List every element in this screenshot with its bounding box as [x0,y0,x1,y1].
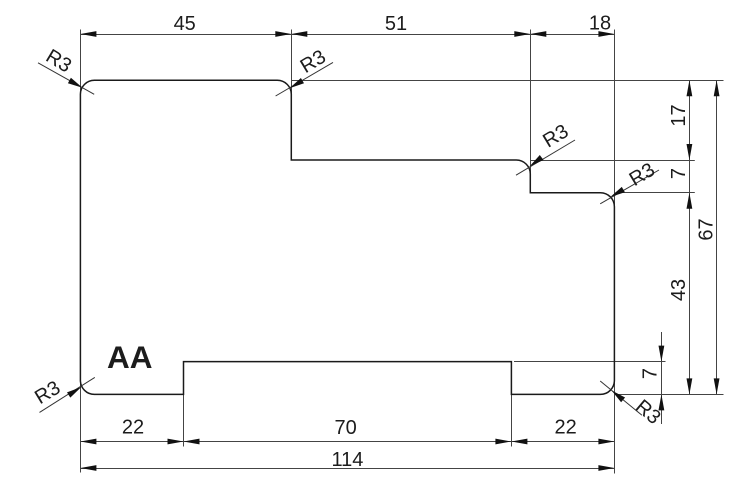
dimension line bottom-right 7 [661,332,663,424]
extension line at x=291.3 [291,30,293,161]
extension line at x=183.5 (notch left) [183,394,185,446]
svg-text:45: 45 [174,13,196,35]
leader R3 bottom-right [600,381,642,415]
arrow 114 left [80,465,96,471]
arrow 22-right right [598,439,614,445]
svg-text:17: 17 [668,104,690,126]
extension line at x=511.4 (notch right) [511,394,513,446]
extension lines [81,30,724,474]
svg-text:51: 51 [385,13,407,35]
leader R3 top-left [38,63,94,95]
arrow 43 bottom [687,378,693,394]
svg-text:22: 22 [554,417,576,439]
svg-text:70: 70 [334,417,356,439]
extension line at y=394.4 (bottom edge, to right dims) [615,394,724,396]
extension line at y=361.6 (notch top) [514,361,666,363]
arrow 22-left left [80,439,96,445]
arrow 70 left [184,439,200,445]
arrow 7-bottom lower (outside, points up) [659,394,665,410]
arrow 45 left [80,31,96,37]
svg-text:7: 7 [640,368,662,379]
svg-text:AA: AA [107,339,153,375]
dimension line top (45 / 51 / 18) [80,34,614,36]
dimension line right (17 / 7 / 43) [689,80,691,394]
dimension line bottom row 2 (114) [80,468,614,470]
extension line at y=192.7 (level 3) [616,192,695,194]
svg-text:7: 7 [668,168,690,179]
arrow 22-left right [168,439,184,445]
arrow 18 left [530,31,546,37]
arrow 22-right left [511,439,527,445]
svg-text:67: 67 [696,218,718,240]
arrow 70 right [495,439,511,445]
dimension lines [80,35,716,469]
arrow 45 right [275,31,291,37]
arrow 17 top [687,80,693,96]
dimension arrowheads [80,31,719,471]
arrow 51 left [291,31,307,37]
extension line at x=80.4 (left) [80,30,82,473]
leader R3 middle step [516,140,575,175]
dimension line bottom row 1 (22 / 70 / 22) [80,441,614,443]
arrow 51 right [514,31,530,37]
svg-text:22: 22 [122,417,144,439]
extension line at x=530.3 [530,30,532,193]
extension line at x=614.4 (right) [614,30,616,474]
extension line at y=80.3 (top edge, to right dims) [292,80,724,82]
arrow 43 top [687,193,693,209]
arrow 67 bottom [714,378,720,394]
leader R3 top-middle [276,62,333,96]
leader R3 bottom-left [40,377,95,412]
svg-text:43: 43 [668,279,690,301]
arrow 67 top [714,80,720,96]
svg-text:18: 18 [589,13,611,35]
dimension line far right (67) [716,80,718,394]
leader R3 right step [600,170,659,204]
arrow 17 bottom [687,144,693,160]
svg-text:114: 114 [332,449,364,471]
arrow 18 right [598,31,614,37]
extension line at y=160 (level 2) [531,160,695,162]
part outline [80,80,614,394]
arrow 114 right [598,465,614,471]
arrow 7-bottom upper (outside, points down) [659,346,665,362]
